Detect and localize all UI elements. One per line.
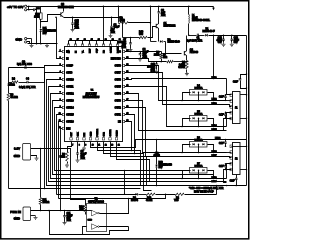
pin OUT9 (62, 71, 64, 73)
wire R3 down (8, 101, 10, 189)
svg-text:8: 8 (79, 145, 80, 147)
svg-text:X7R: X7R (67, 220, 72, 222)
pin OUT15 (62, 113, 64, 115)
wire bottom net 5 (117, 142, 150, 182)
terminal VIN2 (25, 9, 27, 11)
pin CS (122, 50, 124, 52)
diode D11 zener (40, 29, 43, 31)
wire rows to J2 (227, 152, 232, 154)
wire R18 feed (40, 7, 42, 13)
terminal GND1 (25, 38, 27, 40)
resistor R4 + capacitor C4 (44, 68, 46, 83)
ground sym C12 (222, 43, 226, 47)
wire OUT10 route (47, 80, 247, 186)
svg-text:X7R: X7R (81, 158, 86, 160)
wire OUT7 route (125, 73, 227, 105)
wire R40 line (123, 37, 131, 39)
wire Q2 emitter sense (186, 56, 188, 61)
wire LE net (125, 122, 132, 151)
wire input tie (28, 7, 30, 10)
svg-text:MMBT2222: MMBT2222 (164, 26, 177, 28)
svg-text:LE26: LE26 (215, 138, 221, 140)
capacitor C5 (77, 142, 79, 153)
svg-text:LE26: LE26 (212, 151, 218, 153)
svg-text:5pF, 50V, C0G: 5pF, 50V, C0G (17, 64, 32, 66)
wire U2 out2 (100, 226, 129, 228)
svg-text:OVP: OVP (96, 48, 98, 53)
svg-text:10kΩ: 10kΩ (34, 16, 40, 18)
svg-text:C22*: C22* (233, 82, 238, 84)
pin stub NC (59, 51, 63, 53)
svg-text:LE25: LE25 (212, 129, 218, 131)
wire bottom rail (156, 185, 158, 187)
wire LE21 to J1 pin1 (227, 79, 232, 95)
pin RT/SYNC (122, 57, 124, 59)
svg-text:1kΩ: 1kΩ (163, 57, 167, 59)
svg-text:0.1μF: 0.1μF (114, 27, 121, 29)
pin OUT3 (122, 99, 124, 101)
wire top rail (41, 6, 214, 8)
capacitor C21 below J2 (236, 175, 238, 179)
svg-text:MAY BE NO-POP: MAY BE NO-POP (194, 191, 214, 194)
pin IN (62, 57, 64, 59)
ground sym C11 (63, 221, 67, 225)
svg-text:*C10–C29 = 3300pF, 50V, X7R: *C10–C29 = 3300pF, 50V, X7R (189, 187, 224, 190)
diode D9 (135, 193, 137, 196)
pin top IN (74, 44, 76, 46)
wire LE21 row (125, 79, 227, 80)
wire OUT3 route (125, 108, 227, 157)
svg-text:GATE2: GATE2 (109, 129, 112, 137)
pin OUT14 (62, 106, 64, 108)
svg-text:MMBD4148: MMBD4148 (168, 42, 181, 44)
svg-text:12V: 12V (159, 167, 164, 169)
svg-text:OUT5: OUT5 (115, 86, 122, 88)
wire R18-D11 (40, 20, 42, 29)
capacitor C8 (9, 67, 45, 69)
pin top VL (81, 44, 83, 46)
wire CS line (125, 59, 167, 62)
capacitor C12 (223, 36, 225, 40)
svg-text:3.3V: 3.3V (14, 146, 20, 150)
svg-text:0.25W: 0.25W (178, 67, 185, 69)
resistor R8 (68, 142, 72, 152)
wire Q1 emitter (158, 29, 160, 42)
svg-text:C18*: C18* (219, 143, 224, 145)
ground sym J4 (34, 216, 38, 220)
resistor R18 (40, 13, 43, 19)
capacitor C1 (197, 34, 198, 37)
svg-text:OUT7: OUT7 (115, 72, 122, 74)
svg-text:LE: LE (118, 121, 121, 123)
svg-text:DIN: DIN (84, 132, 86, 136)
svg-text:OUT9: OUT9 (66, 72, 73, 74)
pin stub COMP (45, 66, 63, 68)
capacitor C6 (140, 52, 142, 54)
pin top GATE (109, 44, 111, 46)
op-amp U1 MAX16809 body (65, 47, 123, 142)
capacitor C18 (225, 140, 227, 142)
ground sym C15 (71, 28, 75, 32)
resistor R2 (175, 193, 184, 195)
capacitor C13 (231, 36, 233, 40)
svg-text:OUT6: OUT6 (115, 79, 122, 81)
wire IC VIN drop (103, 7, 105, 41)
ground sym C6 (138, 57, 142, 61)
svg-text:C17*: C17* (219, 115, 224, 117)
wire J2 right stubs (241, 169, 247, 171)
svg-text:+9V TO 16V: +9V TO 16V (7, 5, 23, 9)
svg-text:1kΩ: 1kΩ (79, 209, 83, 211)
svg-text:12: 12 (105, 145, 107, 147)
pin bottom GND (89, 138, 91, 140)
svg-text:49.9kΩ: 49.9kΩ (10, 97, 18, 99)
svg-text:LE27: LE27 (212, 155, 218, 157)
pin OUT7 (122, 71, 124, 73)
wire U2 out1 (100, 195, 166, 214)
wire Q3 emitter rail (63, 17, 65, 19)
pin bottom DIN (83, 138, 85, 140)
wire rows to J1 (227, 100, 232, 102)
capacitor C2 (111, 18, 113, 27)
svg-text:GATE: GATE (109, 47, 112, 53)
pin DIM (62, 127, 64, 129)
pin bottom CLK (76, 138, 78, 140)
resistor R11 (39, 198, 42, 205)
svg-text:B2100-13-F: B2100-13-F (203, 31, 216, 33)
wire D9 feed (124, 170, 126, 172)
connector J1 (233, 92, 241, 124)
pin top OVP (95, 44, 97, 46)
pin bottom SYNC (115, 138, 117, 140)
svg-text:OUT12: OUT12 (66, 93, 74, 95)
svg-text:X7R: X7R (151, 71, 156, 73)
svg-text:C16*: C16* (219, 97, 224, 99)
ground sym C7 (129, 48, 133, 52)
pin OUT16 (62, 120, 64, 122)
svg-text:CLK: CLK (77, 132, 79, 137)
svg-text:COMP: COMP (66, 65, 73, 67)
svg-text:OUT15: OUT15 (66, 114, 74, 116)
svg-text:MAX16809ETU: MAX16809ETU (83, 96, 100, 99)
svg-text:RT/SYNC: RT/SYNC (111, 58, 121, 60)
pin top REF (88, 44, 90, 46)
svg-text:LE28: LE28 (212, 177, 218, 179)
svg-text:GND: GND (14, 217, 20, 221)
svg-text:14: 14 (118, 145, 120, 147)
svg-text:LE22: LE22 (212, 99, 218, 101)
svg-text:63V: 63V (234, 42, 239, 44)
svg-text:GND: GND (15, 38, 23, 42)
pin stub CS net (125, 51, 162, 53)
wire U2 in2 (83, 227, 129, 235)
wire Q2 collector (186, 36, 188, 51)
wire R3 row join (9, 188, 45, 190)
pin OUT10 (62, 78, 64, 80)
svg-text:200kΩ: 200kΩ (43, 202, 50, 204)
svg-text:OUT8: OUT8 (115, 65, 122, 67)
svg-text:OUT14: OUT14 (66, 107, 74, 109)
svg-text:MMBT3904LT1: MMBT3904LT1 (58, 7, 74, 9)
wire OUT14 route (55, 108, 183, 171)
svg-text:BAT54A: BAT54A (195, 164, 204, 167)
capacitor C11 (64, 211, 66, 216)
resistor R14 (84, 205, 87, 212)
capacitor C15 (72, 18, 74, 23)
pin OUT5 (122, 85, 124, 87)
wire OUT12 route (51, 94, 227, 179)
svg-text:LE29: LE29 (212, 181, 218, 183)
capacitor C14 (34, 9, 35, 12)
pin bottom GATE2 (109, 138, 111, 140)
ground sym pin3b (84, 142, 86, 147)
svg-text:C19*: C19* (219, 166, 224, 168)
ground sym C5 (76, 159, 80, 163)
border frame (1, 1, 249, 239)
wire bottom net 4 (111, 142, 147, 186)
pin bottom PGND2 (96, 138, 98, 140)
connector J2 (233, 143, 241, 175)
pin OUT6 (122, 78, 124, 80)
capacitor C16 (225, 95, 227, 97)
wire top pin rail (69, 40, 118, 42)
terminal VIN+ (25, 5, 27, 7)
wire OUT11 route (49, 87, 227, 182)
svg-text:0.1μF, 25V, X7R: 0.1μF, 25V, X7R (19, 87, 36, 89)
pin LE (122, 120, 124, 122)
wire dim branch (59, 198, 129, 200)
wire top rail end arrow (213, 7, 215, 8)
wire J2 pin1 rail (232, 146, 247, 148)
svg-text:OUT11: OUT11 (66, 86, 74, 88)
svg-text:X7R: X7R (161, 15, 166, 17)
diode D10 zener (156, 140, 158, 165)
pin OUT13 (62, 99, 64, 101)
resistor R3 (8, 83, 10, 94)
svg-text:OUT2: OUT2 (115, 107, 122, 109)
wire emitter rail corner (64, 18, 123, 38)
svg-text:X7R: X7R (111, 32, 116, 34)
inductor L1 (188, 7, 190, 15)
svg-text:GND: GND (14, 154, 20, 158)
svg-text:SN74LVC2G14: SN74LVC2G14 (88, 201, 104, 203)
pin top PGND (116, 44, 118, 46)
wire OUT16 down (59, 122, 63, 199)
pin OUT4 (122, 92, 124, 94)
wire 3.3V out (31, 149, 86, 205)
wire gnd rail (28, 43, 58, 45)
wire gate riser (150, 7, 152, 42)
svg-text:IN: IN (66, 58, 69, 60)
svg-text:GND: GND (90, 131, 92, 136)
capacitor C22 near J1 (241, 75, 247, 79)
svg-text:MSS7348-683ML: MSS7348-683ML (192, 20, 211, 22)
svg-text:21: 21 (119, 39, 121, 41)
wire L1 to switch rail (188, 24, 190, 36)
svg-text:SYNC: SYNC (116, 130, 118, 136)
svg-text:10V: 10V (43, 33, 48, 35)
resistor R6 (118, 7, 120, 23)
wire PWM out (31, 210, 87, 212)
wire R11 feed (40, 149, 42, 198)
ground sym C2 (109, 34, 113, 38)
ground sym 2 (45, 44, 49, 48)
terminal GND2 (25, 41, 27, 43)
resistor R1 (186, 61, 189, 70)
wire C1 to D1 (199, 35, 205, 37)
capacitor C7 (130, 38, 132, 43)
capacitor C17 (225, 113, 227, 115)
wire bottom net LE26 (91, 140, 247, 148)
wire OUT4 route (125, 101, 227, 153)
svg-text:249kΩ: 249kΩ (8, 85, 15, 87)
svg-text:BAT54A: BAT54A (195, 112, 204, 115)
wire OUT8 route (125, 66, 227, 101)
svg-text:49.9Ω: 49.9Ω (146, 200, 152, 202)
ground sym input (30, 44, 34, 48)
svg-text:(1k): (1k) (139, 34, 143, 36)
wire OUT6 route (125, 87, 227, 127)
wire OUT5 route (125, 94, 227, 131)
wire OUT13 route (53, 101, 214, 175)
wire D11-gnd (40, 32, 42, 44)
svg-text:11: 11 (98, 145, 100, 147)
wire LED+ drop (213, 36, 215, 79)
svg-text:OUT1: OUT1 (115, 114, 122, 116)
diode D1 (205, 34, 207, 37)
capacitor C19 (225, 164, 227, 166)
wire Q3 base (41, 15, 61, 22)
svg-text:28kΩ: 28kΩ (154, 54, 160, 56)
pin bottom CS2 (102, 138, 104, 140)
wire DIM net (61, 129, 63, 211)
svg-text:OUT13: OUT13 (66, 100, 74, 102)
wire gnd3 (31, 156, 37, 157)
svg-text:10μH: 10μH (192, 18, 198, 20)
svg-text:SET: SET (71, 132, 73, 137)
diode D8 (160, 40, 162, 43)
svg-text:BAT54A: BAT54A (195, 138, 204, 141)
wire OUT9 route (45, 73, 141, 189)
pin OUT1 (122, 113, 124, 115)
wire D1 out rail (209, 35, 247, 37)
wire J1 right stubs (241, 94, 247, 96)
pin OUT2 (122, 106, 124, 108)
pin top FB (102, 44, 104, 46)
svg-text:REF: REF (89, 48, 91, 53)
svg-text:OUT16: OUT16 (66, 121, 74, 123)
resistor R10 (146, 193, 155, 195)
svg-text:63V: 63V (218, 42, 223, 44)
svg-text:BAT54: BAT54 (131, 199, 139, 202)
svg-text:13: 13 (111, 145, 113, 147)
wire IN pin feed (57, 18, 62, 59)
wire U2 in1 (87, 210, 92, 212)
svg-text:GND: GND (88, 220, 93, 222)
svg-text:PZT849: PZT849 (190, 52, 199, 54)
ground sym R8 (65, 164, 69, 168)
svg-text:X7R: X7R (75, 28, 80, 30)
ground sym R1 (185, 72, 189, 76)
svg-text:LE24: LE24 (212, 125, 218, 127)
svg-text:OUT4: OUT4 (115, 93, 122, 95)
pin OUT11 (62, 85, 64, 87)
svg-text:10: 10 (92, 145, 94, 147)
svg-text:OUT3: OUT3 (115, 100, 122, 102)
pin COMP (62, 64, 64, 66)
svg-text:1μF 100V X7R: 1μF 100V X7R (187, 41, 202, 43)
svg-text:9: 9 (85, 145, 86, 147)
pin OUT12 (62, 92, 64, 94)
svg-text:7: 7 (72, 145, 73, 147)
svg-text:DIM: DIM (66, 128, 70, 130)
pin OUT8 (122, 64, 124, 66)
svg-text:TBD: TBD (174, 200, 179, 202)
svg-text:PWM IN: PWM IN (10, 210, 21, 214)
ground sym J3 (35, 157, 39, 161)
capacitor C3 (158, 7, 160, 12)
svg-text:LE23: LE23 (212, 103, 218, 105)
svg-text:BAT54A: BAT54A (195, 86, 204, 89)
pin top EP (67, 44, 69, 46)
svg-text:C21*: C21* (230, 181, 235, 183)
svg-text:PGND: PGND (117, 46, 119, 53)
ground sym C10 (155, 70, 159, 74)
wire bottom net 3 (104, 142, 152, 191)
svg-text:PGND2: PGND2 (97, 128, 99, 136)
svg-text:LE21: LE21 (212, 77, 218, 79)
ground sym C13 (230, 43, 234, 47)
svg-text:OUT10: OUT10 (66, 79, 74, 81)
resistor R6 (161, 52, 163, 54)
wire OUT15 down (57, 115, 63, 195)
wire PWM drop (50, 211, 83, 235)
wire bottom net 2 (98, 142, 141, 186)
wire gnd4 (31, 215, 36, 217)
pin NC (62, 50, 64, 52)
wire OUT1 mid (125, 115, 135, 154)
wire right rail (246, 36, 248, 147)
pin bottom SET (70, 138, 72, 140)
wire D8 anode left (151, 41, 157, 43)
pin stub IN (57, 58, 63, 60)
capacitor C10 (156, 62, 158, 64)
